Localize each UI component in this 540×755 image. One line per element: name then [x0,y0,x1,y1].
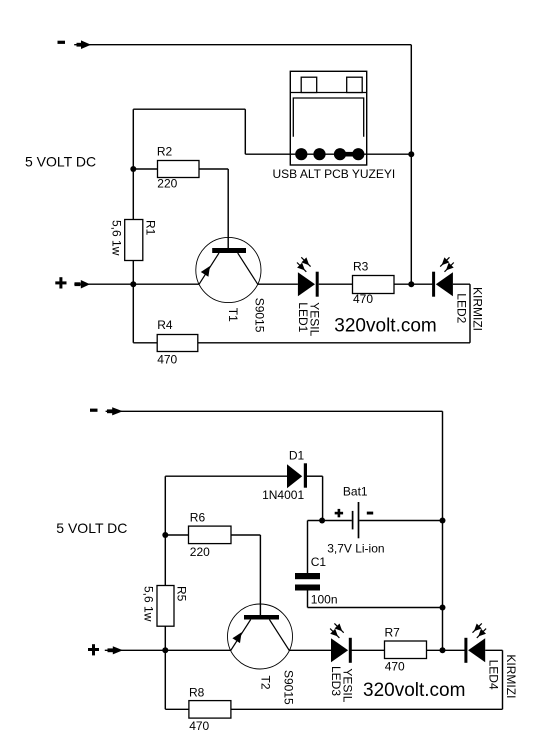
node junction R3-LED2 [408,281,414,287]
resistor R3 [353,276,395,294]
node junction left R2 [130,166,136,172]
wire C1 top riser [307,521,309,574]
wire C1 bottom riser [307,591,309,608]
arrow bottom plus row [108,646,123,654]
svg-text:R6: R6 [190,511,206,525]
LED3 [330,623,352,662]
svg-text:T1: T1 [226,308,240,322]
svg-text:KIRMIZI: KIRMIZI [470,287,484,331]
wire R3 to LED2 [394,283,432,285]
battery plus mark [335,509,343,517]
usb connector divider [290,92,366,94]
wire R4 left stub [133,342,157,344]
wire usb pin row [245,153,411,155]
svg-text:470: 470 [353,292,373,306]
node junction C1 return [440,605,446,611]
wire D1 corner down [322,476,324,520]
node junction usb pin rail [408,151,414,157]
wire battery left stub [308,520,352,522]
svg-text:R2: R2 [157,144,173,158]
node junction battery left [319,518,325,524]
wire right vertical bottom circuit [442,411,444,650]
svg-text:YESIL: YESIL [307,302,321,336]
svg-text:S9015: S9015 [282,670,296,705]
usb pin 4 [352,148,364,160]
svg-text:3,7V Li-ion: 3,7V Li-ion [327,541,384,555]
LED2 [432,257,454,296]
battery Bat1 [353,502,359,538]
wire left vertical top circuit [132,109,134,343]
resistor R5 [157,586,174,627]
svg-text:470: 470 [385,660,405,674]
svg-text:320volt.com: 320volt.com [334,316,436,337]
node junction plus row bottom [162,647,168,653]
transistor T1 [196,237,261,302]
wire LED2 to right corner [453,283,470,285]
wire D1 row left [165,475,287,477]
svg-text:S9015: S9015 [253,298,267,333]
svg-text:R7: R7 [385,626,401,640]
usb pin 2 [313,148,325,160]
svg-text:5 VOLT DC: 5 VOLT DC [56,520,127,536]
svg-text:KIRMIZI: KIRMIZI [504,654,518,698]
resistor R4 [157,335,198,352]
LED4 [464,623,486,662]
usb shield inner [293,98,363,137]
svg-text:R4: R4 [157,318,173,332]
wire R2 to base jog [199,168,228,170]
usb pin 3-4 jumper [340,152,358,157]
wire plus row top circuit [74,283,199,285]
wire right side of loop top circuit [469,284,471,343]
resistor R8 [189,701,231,719]
arrow bottom minus rail [107,407,123,415]
node junction R6 left [162,532,168,538]
svg-text:470: 470 [157,353,177,367]
wire battery right [359,520,442,522]
capacitor C1 [295,573,320,591]
wire LED3 to R7 [351,649,385,651]
svg-text:LED4: LED4 [487,660,501,690]
minus terminal top [58,41,66,44]
svg-text:R5: R5 [175,586,189,602]
wire D1 to corner [307,475,323,477]
wire usb feed vertical [244,109,246,154]
transistor T2 [228,604,293,669]
svg-text:5,6 1w: 5,6 1w [142,586,156,622]
wire right vertical top circuit [410,45,412,285]
wire R7 to LED4 [427,649,467,651]
resistor R1 [125,220,143,261]
usb pin 3 [334,148,346,160]
wire LED1 to R3 [319,283,353,285]
plus terminal top [55,277,66,288]
svg-text:USB ALT PCB YUZEYI: USB ALT PCB YUZEYI [273,167,396,181]
svg-text:D1: D1 [289,449,305,463]
resistor R2 [158,161,200,178]
node junction battery right [440,518,446,524]
wire T2 collector to LED3 [289,649,331,651]
battery minus mark [367,512,373,515]
wire plus row bottom circuit [105,649,231,651]
usb mount tab right [347,77,363,92]
LED1 [297,257,319,296]
svg-text:5,6 1w: 5,6 1w [109,220,123,256]
wire T1 collector to LED1 [258,283,298,285]
plus terminal bottom [88,644,99,655]
svg-text:T2: T2 [258,676,272,690]
svg-text:220: 220 [190,545,210,559]
usb mount tab left [301,77,317,92]
wire R2 left stub [133,168,157,170]
wire C1 bottom return [308,607,443,609]
svg-text:1N4001: 1N4001 [262,488,304,502]
wire T2 base riser [259,535,261,615]
wire right side of loop bottom circuit [502,650,504,709]
svg-text:YESIL: YESIL [340,668,354,702]
svg-text:C1: C1 [311,555,327,569]
svg-text:LED2: LED2 [454,293,468,323]
wire R6 to base jog [231,534,260,536]
wire LED4 to right corner [485,649,502,651]
svg-text:470: 470 [189,719,209,733]
wire R8 left stub [165,708,189,710]
wire left vertical bottom circuit [164,476,166,709]
arrow top minus rail [77,40,92,49]
svg-text:R8: R8 [189,685,205,699]
svg-text:100n: 100n [311,593,338,607]
wire T1 base riser [227,169,229,248]
node junction R7-LED4 [440,647,446,653]
usb connector U1 outline [290,71,366,165]
wire bottom minus rail [106,410,443,412]
diode D1 [287,463,307,488]
svg-text:R1: R1 [143,220,157,236]
minus terminal bottom [90,409,98,412]
svg-text:R3: R3 [353,260,369,274]
resistor R7 [385,641,427,659]
resistor R6 [189,526,232,544]
arrow top plus row [75,280,91,289]
svg-text:320volt.com: 320volt.com [363,680,465,701]
wire R6 left stub [165,534,188,536]
node junction left plus [130,281,136,287]
usb pin 1 [295,148,307,160]
wire bottom return top circuit [198,342,470,344]
svg-text:5 VOLT DC: 5 VOLT DC [25,154,96,170]
wire top minus rail [74,44,411,46]
svg-text:220: 220 [157,177,177,191]
wire usb feed horizontal [133,108,245,110]
wire bottom return bottom circuit [231,708,503,710]
svg-text:Bat1: Bat1 [343,485,368,499]
